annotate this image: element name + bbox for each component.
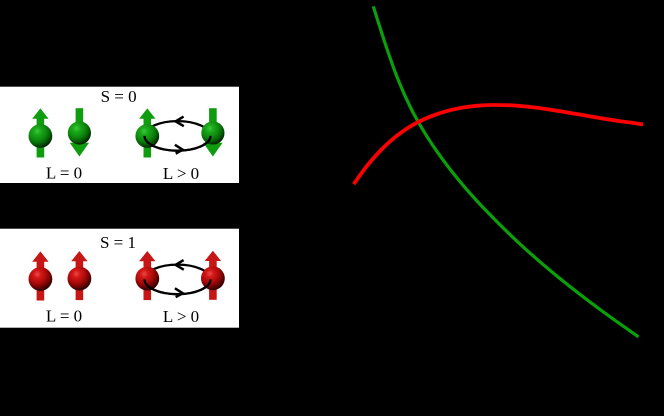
orbit arrow top (left) bbox=[176, 117, 184, 127]
svg-text:L = 0: L = 0 bbox=[46, 164, 82, 183]
red curve (triplet energy) bbox=[354, 105, 643, 184]
orbit 2 arrow bottom (right) bbox=[175, 288, 183, 297]
spin-down electron orbit pair (green) bbox=[201, 108, 224, 156]
orbit arrow bottom (right) bbox=[175, 145, 183, 154]
svg-text:S = 1: S = 1 bbox=[100, 233, 136, 252]
svg-text:L > 0: L > 0 bbox=[163, 164, 199, 183]
green curve (singlet energy) bbox=[373, 6, 638, 337]
spin-up electron (red) bbox=[29, 251, 53, 300]
spin-up electron 2 (red) bbox=[68, 251, 92, 300]
spin-down electron (green) bbox=[68, 108, 91, 156]
panel S=0 (white box) bbox=[0, 87, 239, 183]
orbit ellipse front arc bbox=[145, 136, 211, 151]
orbit ellipse 2 (back) bbox=[145, 265, 211, 295]
panel S=1 (white box) bbox=[0, 229, 239, 328]
spin-up electron orbit pair 2 (red) bbox=[201, 251, 225, 300]
svg-text:L = 0: L = 0 bbox=[46, 307, 82, 326]
spin-up electron (green) bbox=[29, 108, 53, 157]
svg-text:S = 0: S = 0 bbox=[101, 87, 137, 106]
orbit ellipse 2 front arc bbox=[145, 279, 211, 294]
orbit 2 arrow top (left) bbox=[176, 260, 184, 270]
svg-text:L > 0: L > 0 bbox=[163, 307, 199, 326]
spin-up electron orbit pair (red) bbox=[135, 251, 159, 300]
spin-up electron orbit pair (green) bbox=[135, 108, 159, 157]
orbit ellipse (back) bbox=[145, 121, 211, 151]
